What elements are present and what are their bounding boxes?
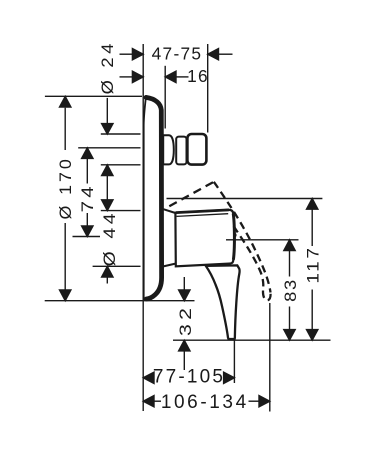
dashed raised lever tip cap — [263, 291, 271, 301]
wire tick handle axis — [226, 239, 299, 241]
dashed raised lever edge B — [214, 182, 271, 293]
wire tick hub bottom — [93, 265, 141, 267]
wire tick hub top — [101, 210, 141, 212]
svg-text:77-105: 77-105 — [153, 367, 225, 388]
svg-text:Ø 24: Ø 24 — [98, 40, 117, 94]
escutcheon plate side profile — [144, 96, 163, 299]
handle cone top edge — [163, 209, 175, 213]
knob base bulge — [163, 135, 174, 164]
svg-text:83: 83 — [281, 278, 300, 302]
wire tick knob top — [101, 133, 141, 135]
dimension 32 — [179, 277, 190, 370]
dimension 47-75 — [120, 49, 233, 60]
dimension D74 — [82, 148, 93, 237]
wire tick plate bottom — [45, 300, 195, 302]
dimension 117 — [307, 199, 318, 341]
wire tick d74 bottom — [73, 236, 101, 238]
wire hub-front extension line — [233, 268, 235, 384]
svg-text:16: 16 — [187, 66, 209, 86]
dimension D44 bottom arrow — [102, 266, 113, 283]
wire tick d74 top — [78, 147, 140, 149]
knob neck — [176, 137, 186, 165]
wire tick lever bottom — [173, 339, 331, 341]
svg-text:106-134: 106-134 — [161, 392, 249, 413]
dimension 106-134 — [143, 396, 270, 407]
svg-text:47-75: 47-75 — [152, 44, 203, 64]
svg-text:Ø 44: Ø 44 — [100, 210, 119, 267]
dashed raised lever edge C — [234, 226, 264, 288]
wire tick plate top — [45, 95, 142, 97]
svg-text:74: 74 — [77, 183, 96, 212]
svg-text:32: 32 — [177, 304, 196, 336]
wire plate-face extension line — [164, 66, 166, 129]
wire knob-front extension line — [207, 44, 209, 133]
handle cone bottom edge — [163, 264, 175, 267]
wire tick knob bottom — [101, 164, 141, 166]
wire wall extension line — [142, 44, 144, 411]
dashed raised lever edge A — [169, 182, 214, 206]
dimension 77-105 — [143, 372, 234, 383]
svg-text:117: 117 — [303, 245, 322, 283]
knob head — [187, 134, 206, 165]
hub pin nub — [234, 233, 237, 238]
hub right edge thick — [233, 214, 234, 260]
hub top edge thick — [176, 210, 229, 213]
wire tick raised-lever top — [167, 198, 323, 200]
wire dashed-tip extension line — [269, 303, 271, 412]
dimension 83 — [284, 240, 295, 340]
dimension 16 — [120, 71, 189, 82]
dimension D24 knob leader — [102, 98, 113, 211]
svg-text:Ø 170: Ø 170 — [55, 156, 75, 219]
dimension D170 — [60, 96, 71, 300]
handle hub body — [175, 210, 234, 266]
hub chamfer line — [177, 214, 229, 217]
handle lever blade — [206, 265, 240, 339]
plate face thick edge — [146, 97, 162, 299]
